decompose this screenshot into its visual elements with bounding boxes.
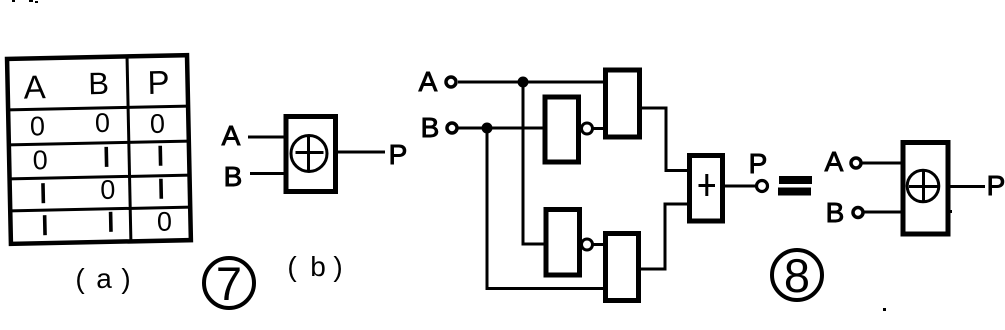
wire inverter2 to AND2 [592, 243, 606, 246]
XOR body rectangle (b) [286, 117, 336, 192]
wire inverter1 to AND1 [592, 127, 606, 130]
svg-text:0: 0 [100, 175, 116, 205]
figure 8: gate-level circuit [419, 66, 768, 301]
svg-text:A: A [23, 68, 46, 105]
output terminal P [757, 181, 768, 192]
table row separator 3 [10, 207, 190, 211]
svg-text:(b): (b) [287, 251, 342, 282]
table outer border [7, 55, 191, 244]
wire B right [864, 211, 904, 214]
wire B horizontal [458, 127, 544, 130]
circled figure number 7 [204, 258, 254, 308]
wire A horizontal [458, 81, 604, 84]
wire AND2 output [640, 204, 690, 269]
XOR plus right [909, 185, 938, 188]
digit 1 cells [104, 147, 108, 167]
svg-text:0: 0 [95, 108, 111, 138]
wire B to XOR (b) [250, 172, 288, 175]
svg-text:A: A [222, 120, 241, 151]
inverter 2 bubble [582, 239, 593, 250]
svg-text:0: 0 [150, 109, 166, 139]
svg-text:7: 7 [216, 257, 242, 310]
table row separator 2 [10, 175, 190, 179]
XOR circle (b) [291, 136, 327, 172]
svg-text:(a): (a) [75, 263, 130, 294]
XOR body rectangle right [903, 143, 948, 235]
circled figure number 8 [772, 250, 822, 300]
equivalence sign [778, 176, 812, 196]
inverter 1 bubble [582, 123, 593, 134]
OR plus sign [699, 184, 716, 187]
OR gate body [690, 156, 723, 222]
truth table (a) [7, 55, 191, 244]
svg-text:B: B [826, 197, 845, 228]
inverter 2 body [546, 210, 580, 276]
svg-text:A: A [825, 146, 844, 177]
wire B branch down [487, 128, 606, 289]
input terminal B right [853, 208, 863, 218]
junction node on A [518, 77, 529, 88]
wire A right [862, 162, 904, 165]
output wire (b) [338, 151, 385, 154]
wire A to XOR (b) [248, 136, 286, 139]
svg-text:P: P [749, 148, 768, 179]
table text [23, 64, 173, 240]
table row separator 1 [9, 141, 189, 145]
inverter 1 body [545, 97, 579, 162]
input terminal A [446, 77, 456, 87]
svg-text:P: P [147, 64, 170, 101]
wire A branch down [523, 82, 546, 244]
svg-text:8: 8 [784, 249, 810, 302]
XOR circle right [907, 170, 939, 202]
svg-text:P: P [987, 170, 1005, 201]
output wire right [948, 185, 985, 188]
AND gate 1 body [606, 70, 640, 137]
XOR gate symbol (b) [222, 117, 408, 193]
input terminal A right [851, 158, 861, 168]
junction node on B [482, 123, 493, 134]
wire AND1 output [642, 108, 690, 171]
AND gate 2 body [606, 234, 639, 301]
svg-text:0: 0 [157, 207, 173, 237]
svg-text:B: B [224, 161, 243, 192]
svg-text:0: 0 [30, 111, 46, 141]
svg-text:P: P [389, 139, 408, 170]
stray speck near right P [949, 210, 952, 213]
stray dot bottom right [883, 308, 886, 311]
table header separator [8, 106, 188, 110]
wire OR output [725, 185, 756, 188]
svg-text:0: 0 [32, 145, 48, 175]
svg-text:B: B [421, 112, 440, 143]
XOR plus (b) [296, 151, 324, 154]
table column divider [127, 56, 131, 241]
speck top-left [12, 0, 15, 2]
input terminal B [447, 123, 457, 133]
speck top-left 2 [29, 0, 33, 2]
svg-text:A: A [419, 66, 438, 97]
svg-text:B: B [88, 66, 109, 101]
XOR gate symbol (fig 8 right) [825, 143, 1005, 235]
